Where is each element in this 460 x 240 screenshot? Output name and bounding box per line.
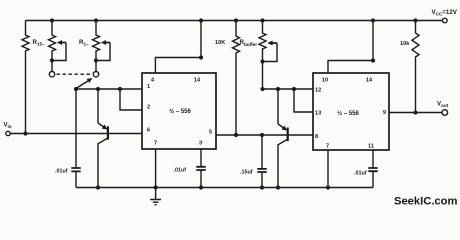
potentiometer Rbuffer — [259, 21, 266, 90]
op IC2 half 556 box — [313, 73, 389, 150]
node Q2 emitter rail dot — [276, 185, 280, 189]
svg-text:Vin: Vin — [4, 123, 12, 130]
node Vcc rail junction dots — [50, 18, 54, 22]
svg-text:SeekIC.com: SeekIC.com — [394, 196, 457, 208]
wiper Rbuffer — [263, 43, 278, 62]
wire Vcc top rail — [26, 20, 443, 22]
switch dashed gang link — [57, 73, 92, 75]
node Vout junction dot — [413, 110, 417, 114]
wiper R15 — [52, 43, 66, 61]
svg-text:7: 7 — [154, 141, 157, 147]
svg-text:9: 9 — [383, 110, 386, 116]
wire ground bottom rail — [76, 187, 373, 189]
svg-text:5: 5 — [209, 130, 212, 136]
svg-text:12: 12 — [315, 88, 321, 94]
wire IC2 pin 7 down — [327, 150, 329, 188]
node R1 bottom dot — [94, 58, 98, 62]
wire IC1 pin 5 to IC2 pin 8 — [216, 134, 313, 136]
node pin7 rail dot — [154, 185, 158, 189]
svg-text:.15uf: .15uf — [240, 170, 253, 176]
svg-text:Rbuffer: Rbuffer — [240, 39, 258, 47]
wire IC1 pin 7 down — [155, 149, 157, 188]
capacitor .01uf at pin 3 — [200, 149, 202, 188]
terminal Vin — [6, 131, 10, 135]
switch contact B — [93, 72, 98, 77]
potentiometer R15 — [49, 21, 56, 72]
svg-text:R1–: R1– — [79, 39, 89, 47]
terminal Vcc — [443, 18, 448, 23]
node cap15 rail dot — [260, 185, 264, 189]
node rail2b dots — [260, 87, 264, 91]
wire IC1 pins 4,14 to rail — [155, 21, 201, 74]
ground — [150, 188, 161, 205]
node pins 4-14 junction — [199, 55, 203, 59]
svg-text:3: 3 — [199, 141, 202, 147]
op IC1 half 556 box — [142, 73, 216, 149]
svg-text:.01uf: .01uf — [174, 168, 187, 174]
wire rail2b to IC2 pin 12 — [263, 88, 314, 90]
resistor 10K — [233, 21, 240, 136]
svg-text:14: 14 — [366, 78, 373, 84]
terminal Vout — [442, 110, 448, 116]
svg-text:4: 4 — [151, 78, 155, 84]
svg-text:2: 2 — [147, 105, 150, 111]
node Rbuffer bottom dot — [260, 59, 264, 63]
svg-text:10: 10 — [322, 78, 328, 84]
svg-text:Vout: Vout — [437, 102, 449, 109]
node pin5 wire dots — [234, 133, 238, 137]
svg-text:½ – 556: ½ – 556 — [337, 110, 359, 117]
capacitor .01uf at pin 11 — [372, 150, 374, 188]
capacitor .15uf — [261, 135, 263, 188]
svg-text:10k: 10k — [400, 41, 410, 47]
node pin7b rail dot — [326, 185, 330, 189]
transistor Q2 — [277, 89, 279, 124]
potentiometer R1 — [93, 21, 100, 72]
svg-text:8: 8 — [315, 134, 318, 140]
wire to IC1 pin 2 — [120, 89, 142, 110]
node rail2 dots — [74, 87, 78, 91]
node pins 10-14 junction — [371, 58, 375, 62]
node Vin junction dot — [23, 131, 27, 135]
svg-text:14: 14 — [194, 78, 201, 84]
capacitor .01uf input — [75, 89, 77, 188]
resistor left unlabeled — [22, 21, 29, 134]
svg-text:10K: 10K — [215, 40, 225, 46]
svg-text:R15–: R15– — [33, 39, 46, 47]
wire pin 9 to Vout — [389, 112, 442, 114]
resistor 10k pullup — [412, 21, 419, 113]
svg-text:½ – 556: ½ – 556 — [169, 108, 191, 115]
svg-text:6: 6 — [147, 128, 150, 134]
switch selector arrow — [76, 79, 92, 89]
node cap3 rail dot — [199, 185, 203, 189]
transistor Q1 — [97, 89, 99, 123]
svg-text:.01uf: .01uf — [55, 169, 68, 175]
svg-text:11: 11 — [368, 144, 374, 150]
wire to IC2 pin 13 — [294, 89, 313, 112]
wire Vin to pin 6 — [11, 133, 142, 135]
svg-text:7: 7 — [326, 144, 329, 150]
svg-text:13: 13 — [315, 111, 321, 117]
svg-text:.01uf: .01uf — [354, 171, 367, 177]
wire rail to IC1 pin 1 — [76, 88, 142, 90]
svg-text:VCC=12V: VCC=12V — [432, 9, 458, 17]
wiper R1 — [96, 43, 110, 61]
switch contact A — [49, 72, 54, 77]
wire IC2 pins 10,14 to rail — [328, 21, 373, 74]
svg-text:1: 1 — [147, 84, 150, 90]
node R15 bottom dot — [50, 58, 54, 62]
node Q1 emitter rail dot — [96, 185, 100, 189]
